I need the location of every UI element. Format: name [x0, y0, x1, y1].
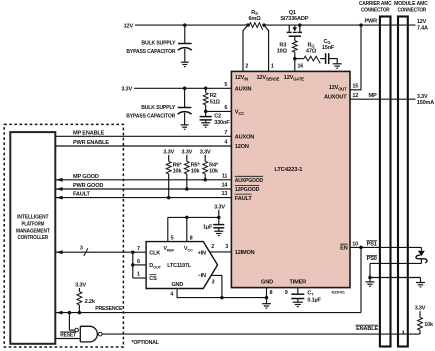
wire gate node to pin 16: [294, 59, 296, 72]
node Q1 drain: [298, 23, 302, 27]
wire IC GND pin 8: [266, 288, 268, 298]
node GND net: [265, 296, 269, 300]
wire VREF pin 5 stub: [167, 217, 169, 241]
wire ADC -IN to ground run: [211, 275, 222, 297]
svg-text:BYPASS CAPACITOR: BYPASS CAPACITOR: [126, 113, 175, 119]
wire SPI bus controller to ADC: [55, 251, 146, 253]
svg-text:12ON: 12ON: [235, 144, 249, 150]
svg-text:5: 5: [224, 82, 227, 88]
wire EN node down to PRESENCE: [360, 247, 362, 312]
wire CG to ground: [329, 59, 338, 64]
svg-text:1: 1: [271, 64, 274, 70]
node -IN ground junction: [220, 296, 224, 300]
wire EN pin 10 to PS1: [350, 246, 421, 248]
svg-text:RESET: RESET: [60, 333, 76, 339]
wire logic ground across connectors: [370, 277, 421, 279]
svg-text:R2: R2: [210, 93, 217, 99]
svg-text:6mΩ: 6mΩ: [248, 16, 261, 22]
svg-text:*OPTIONAL: *OPTIONAL: [132, 340, 160, 346]
svg-text:10Ω: 10Ω: [277, 48, 288, 54]
svg-text:BYPASS CAPACITOR: BYPASS CAPACITOR: [126, 49, 175, 55]
svg-text:7: 7: [137, 246, 140, 252]
svg-text:FAULT: FAULT: [235, 196, 253, 202]
wire kelvin sense to pin 2: [243, 25, 248, 71]
wire ADC +IN to 12IMON pin 3: [210, 251, 232, 253]
svg-text:INTELLIGENT: INTELLIGENT: [17, 215, 49, 221]
svg-text:VREF: VREF: [163, 246, 175, 252]
node VCC filter: [204, 110, 208, 114]
ground CT: [293, 301, 303, 303]
svg-text:7.4A: 7.4A: [417, 25, 428, 31]
capacitor bulk supply bypass 12V: [184, 25, 186, 43]
svg-text:TIMER: TIMER: [290, 280, 307, 286]
svg-text:3: 3: [80, 245, 83, 251]
capacitor CG 15nF: [320, 58, 325, 60]
wire PRESENCE to controller: [55, 312, 361, 314]
svg-text:16: 16: [297, 64, 303, 70]
wire kelvin sense to pin 1: [264, 25, 269, 71]
svg-text:10k: 10k: [424, 322, 434, 328]
capacitor CT 0.1uF timer: [297, 288, 299, 294]
svg-text:LTC4223-1: LTC4223-1: [274, 167, 302, 173]
svg-text:PS0: PS0: [367, 256, 377, 262]
svg-text:10k: 10k: [173, 169, 183, 175]
svg-text:1µF: 1µF: [203, 225, 213, 231]
svg-text:3.3V: 3.3V: [214, 204, 225, 210]
svg-text:51Ω: 51Ω: [210, 99, 221, 105]
module AMC connector: [398, 17, 408, 347]
svg-text:VCC: VCC: [235, 110, 244, 116]
svg-text:AUXON: AUXON: [235, 135, 254, 141]
ground bulk cap 12V: [181, 61, 189, 63]
ground CG: [333, 63, 342, 65]
svg-text:GND: GND: [261, 280, 273, 286]
svg-text:150mA: 150mA: [417, 100, 434, 106]
wire VCC pin 8 stub: [185, 216, 189, 220]
svg-text:3: 3: [225, 244, 228, 250]
svg-text:CS: CS: [149, 276, 157, 282]
module PS1 to PS0 contact: [420, 247, 422, 250]
capacitor 1uF ADC supply: [218, 217, 220, 224]
svg-text:PS1: PS1: [367, 241, 377, 247]
ADC U3 LTC1197L: [146, 242, 217, 289]
svg-text:330nF: 330nF: [214, 120, 230, 126]
ground IC GND: [262, 303, 271, 305]
svg-text:CONTROLLER: CONTROLLER: [18, 235, 49, 241]
svg-text:6: 6: [224, 105, 227, 111]
svg-text:5: 5: [171, 236, 174, 242]
svg-text:10: 10: [352, 241, 358, 247]
svg-text:−IN: −IN: [198, 273, 206, 279]
svg-text:CONNECTOR: CONNECTOR: [361, 7, 390, 13]
wire pin 15 12VOUT to PWR rail: [359, 23, 363, 27]
svg-text:CT: CT: [307, 290, 314, 296]
svg-text:PRESENCE: PRESENCE: [95, 306, 123, 312]
svg-text:MP GOOD: MP GOOD: [73, 174, 99, 180]
svg-text:12VIN: 12VIN: [235, 75, 248, 81]
svg-text:Q1: Q1: [289, 10, 296, 16]
wire AUXOUT pin 12 to module 3.3V: [350, 98, 416, 100]
svg-text:ENABLE: ENABLE: [356, 326, 378, 332]
svg-text:3.3V: 3.3V: [200, 149, 211, 155]
svg-text:10k: 10k: [209, 169, 219, 175]
svg-text:1: 1: [137, 272, 140, 278]
node presence NAND tap: [68, 311, 72, 315]
capacitor C2 330nF: [205, 111, 207, 116]
ground module logic: [416, 282, 425, 284]
svg-text:CARRIER AMC: CARRIER AMC: [359, 1, 392, 7]
wire 12V rail to Q1 drain and PWR: [263, 24, 416, 26]
wire ADC GND pin 4 to IC GND: [177, 289, 266, 298]
carrier AMC connector: [380, 17, 391, 347]
svg-text:12VSENSE: 12VSENSE: [257, 75, 280, 81]
svg-text:2.2k: 2.2k: [85, 299, 96, 305]
module connector ENABLE stub: [402, 331, 404, 335]
svg-text:15: 15: [352, 84, 358, 90]
svg-text:+IN: +IN: [198, 250, 206, 256]
resistor R2 51Ohm: [204, 87, 208, 91]
svg-text:LTC1197L: LTC1197L: [167, 263, 191, 269]
svg-text:EN: EN: [340, 246, 348, 252]
node RS right kelvin: [262, 23, 266, 27]
node gate network: [293, 57, 297, 61]
svg-text:12VOUT: 12VOUT: [329, 85, 347, 91]
svg-text:MP ENABLE: MP ENABLE: [73, 130, 105, 136]
svg-text:12: 12: [352, 93, 358, 99]
node EN PS1 presence: [359, 246, 363, 250]
svg-text:12V: 12V: [417, 19, 427, 25]
dashed box IPMC optional: [4, 124, 123, 347]
svg-text:3.3V: 3.3V: [121, 87, 132, 93]
wire DOUT branch: [133, 264, 146, 266]
IPMC controller box: [10, 132, 55, 344]
resistor RG 47Ohm: [295, 58, 304, 60]
svg-text:CG: CG: [324, 39, 331, 45]
svg-text:3.3V: 3.3V: [75, 283, 86, 289]
svg-text:MODULE AMC: MODULE AMC: [394, 1, 428, 7]
IC U1 LTC4223-1: [231, 71, 350, 287]
svg-text:12PGOOD: 12PGOOD: [235, 187, 260, 193]
wire NAND output ENABLE: [102, 333, 420, 335]
svg-text:CLK: CLK: [149, 250, 160, 256]
wire presence to NAND input: [69, 313, 74, 331]
ground PS0 carrier: [366, 281, 375, 283]
ground 1uF: [214, 230, 223, 232]
svg-text:AUXPGOOD: AUXPGOOD: [235, 178, 263, 184]
svg-text:DOUT: DOUT: [149, 263, 161, 269]
svg-text:3.3V: 3.3V: [163, 149, 174, 155]
svg-text:4223I F01: 4223I F01: [331, 291, 345, 295]
svg-text:8: 8: [270, 290, 273, 296]
svg-text:3: 3: [212, 279, 215, 285]
svg-text:2: 2: [211, 244, 214, 250]
svg-text:15nF: 15nF: [322, 45, 335, 51]
svg-text:12VGATE: 12VGATE: [284, 75, 304, 81]
svg-text:MANAGEMENT: MANAGEMENT: [16, 228, 50, 234]
ground C2: [201, 122, 210, 124]
wire to VCC pin 6: [206, 110, 232, 112]
svg-text:PLATFORM: PLATFORM: [21, 221, 44, 227]
svg-text:12V: 12V: [124, 23, 134, 29]
svg-text:47Ω: 47Ω: [306, 48, 317, 54]
wire 3.3V rail to AUXIN pin 5: [134, 87, 231, 89]
capacitor bulk supply bypass 3.3V: [184, 88, 186, 107]
svg-text:7: 7: [224, 130, 227, 136]
bus width 3 marker: [84, 248, 88, 256]
svg-text:FAULT: FAULT: [73, 192, 90, 198]
svg-text:C2: C2: [214, 114, 221, 120]
svg-text:6: 6: [137, 259, 140, 265]
svg-text:PWR ENABLE: PWR ENABLE: [73, 140, 109, 146]
node RS left kelvin: [246, 23, 250, 27]
wire RESET to NAND input: [55, 338, 80, 340]
wire 12V rail: [135, 24, 249, 26]
svg-text:10k: 10k: [191, 169, 201, 175]
svg-text:3.3V: 3.3V: [415, 306, 426, 312]
svg-text:12IMON: 12IMON: [235, 250, 255, 256]
wire Q1 gate lead: [294, 36, 296, 40]
svg-text:11: 11: [222, 173, 228, 179]
wire PS0 to carrier ground: [369, 263, 371, 277]
svg-text:PWR: PWR: [364, 18, 377, 24]
svg-text:VCC: VCC: [184, 246, 193, 252]
svg-text:BULK SUPPLY: BULK SUPPLY: [141, 41, 175, 47]
svg-text:AUXOUT: AUXOUT: [324, 95, 347, 101]
svg-text:CONNECTOR: CONNECTOR: [397, 7, 426, 13]
svg-text:3.3V: 3.3V: [417, 94, 428, 100]
svg-text:3.3V: 3.3V: [181, 149, 192, 155]
wire CS branch: [133, 277, 146, 279]
svg-text:13: 13: [222, 191, 228, 197]
ground bulk cap 3.3V: [181, 124, 189, 126]
NAND gate U2 with inverted input: [75, 328, 79, 332]
svg-text:Si7336ADP: Si7336ADP: [280, 16, 308, 22]
svg-text:BULK SUPPLY: BULK SUPPLY: [141, 105, 175, 111]
resistor R3 10Ohm: [292, 41, 297, 53]
wire bus vertical: [132, 252, 134, 278]
resistor RS 6mOhm sense: [249, 23, 262, 30]
svg-text:PWR GOOD: PWR GOOD: [73, 183, 103, 189]
svg-text:GND: GND: [171, 282, 183, 288]
svg-text:2: 2: [245, 64, 248, 70]
svg-text:8: 8: [190, 236, 193, 242]
svg-text:9: 9: [285, 290, 288, 296]
svg-text:0.1µF: 0.1µF: [307, 298, 321, 304]
svg-text:MP: MP: [368, 93, 376, 99]
wire PS0: [370, 262, 421, 264]
svg-text:AUXIN: AUXIN: [235, 87, 252, 93]
